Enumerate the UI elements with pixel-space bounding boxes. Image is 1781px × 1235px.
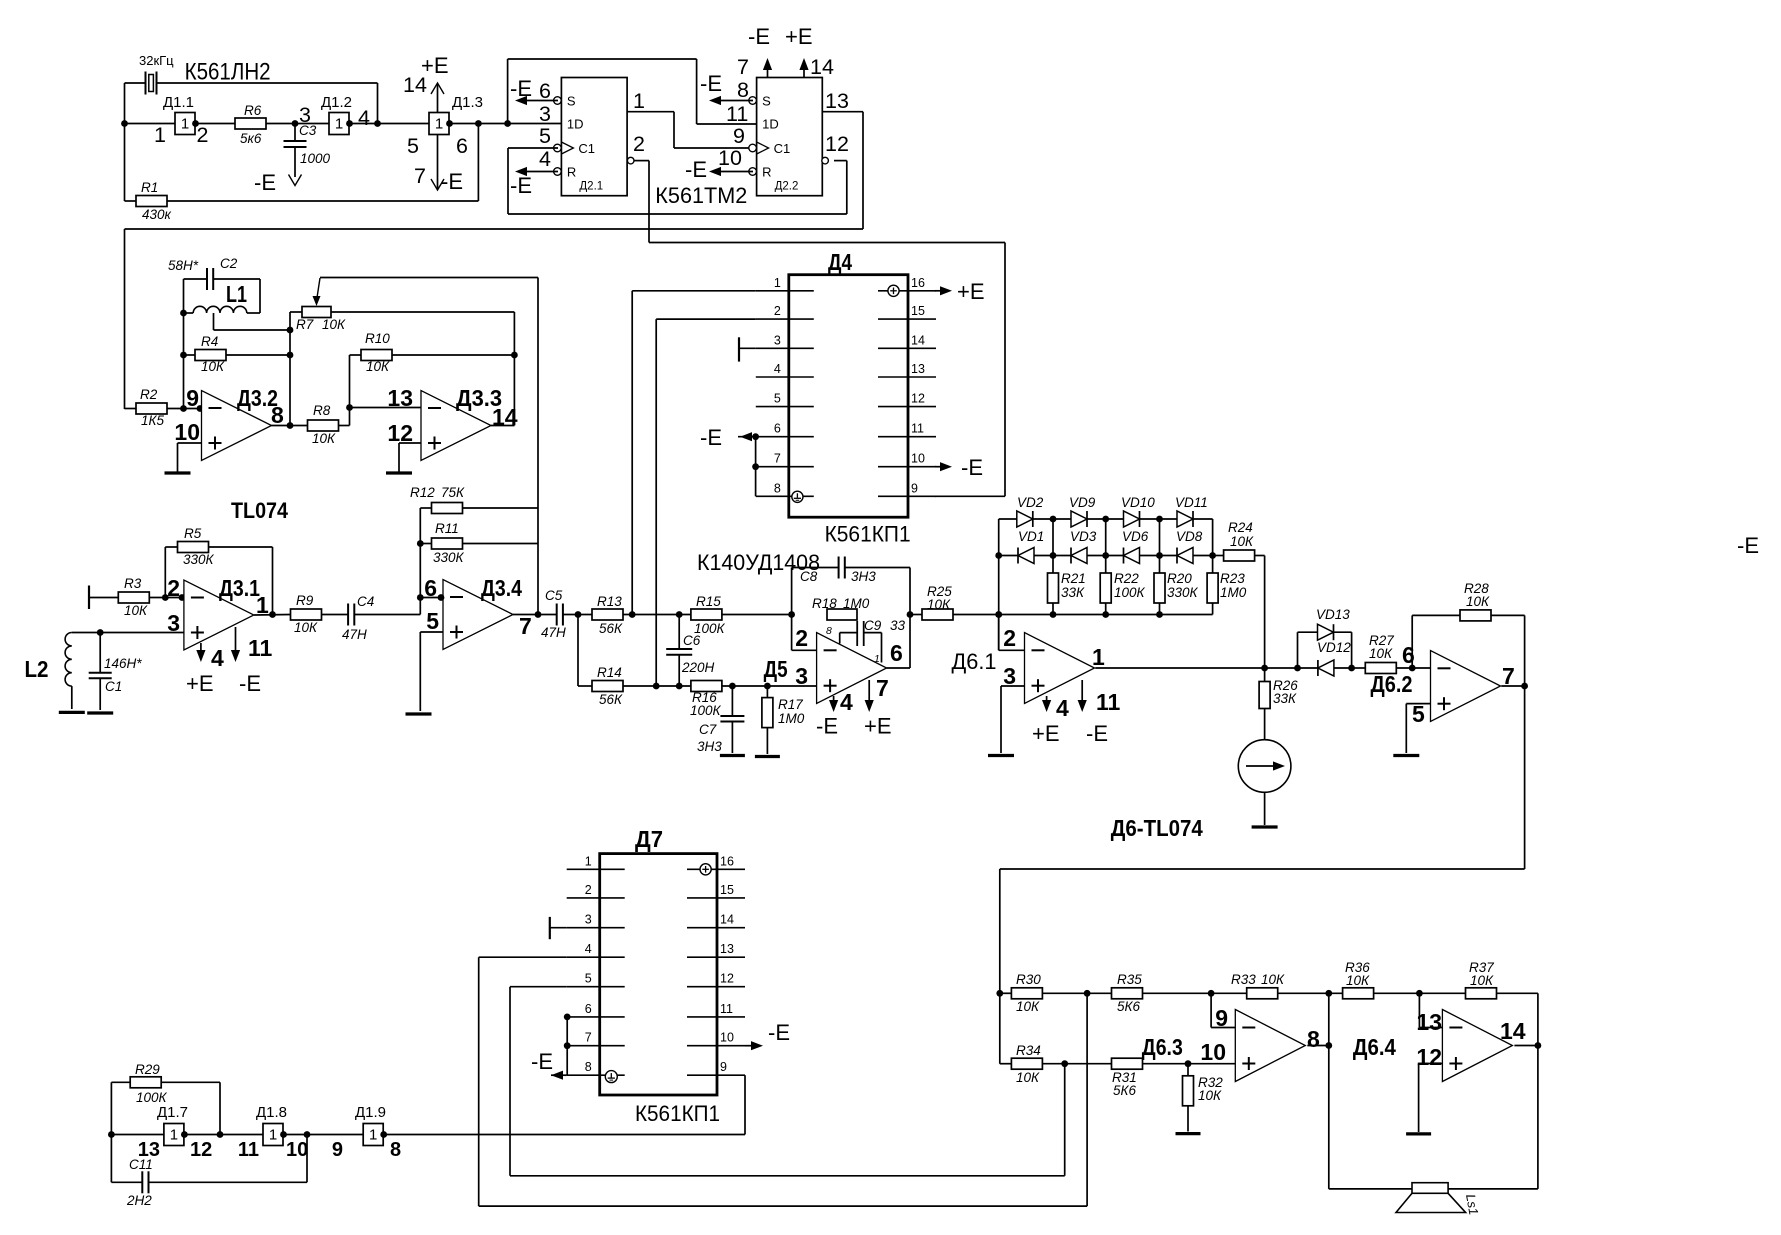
svg-text:R: R <box>762 165 771 180</box>
resistor R6 5к6 <box>235 118 266 129</box>
inverter Д1.3 <box>429 113 449 135</box>
svg-text:C1: C1 <box>105 679 122 694</box>
svg-text:9: 9 <box>911 481 918 495</box>
resistor R8 10К <box>308 420 339 431</box>
wire R11/R12 left to Д3.4 minus <box>419 508 421 598</box>
wire to Д1.7 <box>111 1134 163 1136</box>
svg-text:S: S <box>762 94 771 109</box>
svg-text:11: 11 <box>1096 689 1121 715</box>
svg-text:L1: L1 <box>226 281 247 307</box>
svg-text:4: 4 <box>211 645 224 671</box>
svg-text:10К: 10К <box>1016 1070 1040 1085</box>
svg-text:6: 6 <box>774 422 781 436</box>
diode VD2 <box>1017 511 1033 527</box>
svg-text:Д6.1: Д6.1 <box>952 649 997 674</box>
svg-text:5К6: 5К6 <box>1117 999 1140 1014</box>
svg-text:1: 1 <box>154 123 166 147</box>
capacitor C2 58Н* <box>184 278 208 280</box>
svg-text:100К: 100К <box>136 1090 168 1105</box>
wire Д5 out <box>887 667 910 669</box>
op-amp Д6.1 <box>1025 633 1095 704</box>
svg-text:-E: -E <box>768 1020 790 1045</box>
svg-text:9: 9 <box>186 385 199 411</box>
svg-text:10: 10 <box>174 419 200 445</box>
resistor R12 75К <box>420 507 431 509</box>
diode VD8 <box>1177 548 1193 564</box>
svg-text:R3: R3 <box>124 576 142 591</box>
svg-text:13: 13 <box>1416 1009 1442 1035</box>
svg-text:10К: 10К <box>312 431 336 446</box>
svg-text:VD1: VD1 <box>1018 529 1044 544</box>
svg-text:8: 8 <box>737 78 749 102</box>
wire Д3.3 out <box>491 425 514 427</box>
svg-text:330К: 330К <box>1167 585 1199 600</box>
svg-text:75К: 75К <box>441 485 465 500</box>
svg-text:R35: R35 <box>1117 972 1142 987</box>
power pin 7 -E of Д2.2 <box>767 62 769 78</box>
resistor R5 330К feedback <box>164 547 166 598</box>
wire Д6.2 out down to lowpass <box>1524 686 1526 869</box>
svg-text:9: 9 <box>733 124 745 148</box>
svg-text:1D: 1D <box>762 117 779 132</box>
svg-text:Д1.7: Д1.7 <box>157 1104 188 1121</box>
svg-text:C2: C2 <box>220 256 238 271</box>
svg-text:32кГц: 32кГц <box>139 53 174 68</box>
svg-text:Д1.9: Д1.9 <box>355 1104 386 1121</box>
svg-text:1: 1 <box>585 854 592 868</box>
ground symbol pin 8 of Д4 <box>792 491 803 502</box>
svg-text:10К: 10К <box>1230 534 1254 549</box>
capacitor C8 3Н3 feedback <box>791 568 793 615</box>
svg-text:Д6-TL074: Д6-TL074 <box>1111 815 1203 841</box>
svg-text:4: 4 <box>539 147 551 171</box>
svg-text:8: 8 <box>585 1060 592 1074</box>
input terminator bar <box>88 586 90 610</box>
svg-text:58Н*: 58Н* <box>168 258 199 273</box>
wire Д6.3 out <box>1307 1045 1329 1047</box>
svg-text:5: 5 <box>539 124 551 148</box>
resistor R18 1М0 feedback <box>827 609 857 620</box>
op-amp Д3.4 <box>443 580 513 650</box>
svg-text:-E: -E <box>1086 721 1108 746</box>
wire Д3.1 out <box>254 614 291 617</box>
svg-text:Д2.1: Д2.1 <box>579 181 603 193</box>
svg-text:5: 5 <box>426 608 439 634</box>
svg-text:10: 10 <box>286 1139 308 1161</box>
svg-text:S: S <box>567 94 576 109</box>
pin 10 R of Д2.2 to -E <box>718 171 753 173</box>
wire Д1.7 to Д1.8 <box>184 1134 263 1136</box>
svg-text:10К: 10К <box>366 359 390 374</box>
svg-text:VD9: VD9 <box>1069 495 1096 510</box>
svg-text:14: 14 <box>911 333 925 347</box>
loudspeaker LS1 <box>1412 1183 1448 1194</box>
svg-text:R2: R2 <box>140 387 158 402</box>
capacitor C11 2Н2 <box>110 1135 112 1183</box>
svg-text:4: 4 <box>1056 695 1069 721</box>
resistor R27 10К <box>1352 667 1366 669</box>
svg-text:56К: 56К <box>599 621 623 636</box>
pin 6 S of Д2.1 to -E <box>524 100 558 102</box>
svg-text:R20: R20 <box>1167 571 1192 586</box>
svg-text:4: 4 <box>358 106 370 130</box>
wire Д6.2 output <box>1501 685 1524 687</box>
svg-text:2Н2: 2Н2 <box>126 1193 152 1208</box>
resistor R37 10К <box>1466 988 1497 999</box>
wire L1 tap to Д3.2 node <box>213 313 215 330</box>
svg-text:10К: 10К <box>1261 972 1285 987</box>
wire R6 to node 3 <box>266 123 329 125</box>
ground symbol pin 8 of Д7 <box>605 1071 617 1083</box>
ground + input Д6.2 <box>1406 703 1430 705</box>
wire R36 to Д6.4 minus <box>1418 993 1420 1027</box>
wire R37 to Д6.4 out <box>1537 993 1539 1045</box>
svg-text:8: 8 <box>774 481 781 495</box>
node R30 <box>996 990 1003 997</box>
resistor R23 1М0 <box>1212 556 1214 574</box>
svg-text:+E: +E <box>957 279 985 304</box>
svg-text:-E: -E <box>510 173 532 198</box>
svg-text:Д2.2: Д2.2 <box>775 181 799 193</box>
wire Д4 pin 1 to R13 node <box>632 290 756 292</box>
svg-text:C3: C3 <box>299 123 317 138</box>
wire Д7 pin 5 bus to R30 node <box>510 986 567 988</box>
svg-text:6: 6 <box>539 79 551 103</box>
svg-text:6: 6 <box>585 1002 592 1016</box>
svg-text:R1: R1 <box>141 180 158 195</box>
svg-text:VD6: VD6 <box>1122 529 1149 544</box>
arrow -E below C3 <box>289 175 302 186</box>
resistor R29 100К <box>110 1082 112 1134</box>
svg-text:10К: 10К <box>322 317 346 332</box>
resistor R26 33К <box>1264 668 1266 682</box>
ground + input Д6.1 <box>1001 685 1025 687</box>
capacitor C6 220Н <box>678 615 680 650</box>
svg-text:-E: -E <box>685 157 707 182</box>
svg-text:-E: -E <box>239 671 261 696</box>
power arrows Д5 pins 4 7 <box>833 696 835 702</box>
svg-text:1: 1 <box>435 116 443 133</box>
op-amp Д3.1 <box>184 580 254 650</box>
ground + input Д3.4 <box>420 631 443 633</box>
svg-text:5к6: 5к6 <box>240 131 262 146</box>
svg-text:33: 33 <box>890 618 906 633</box>
svg-text:1D: 1D <box>567 117 584 132</box>
svg-text:100К: 100К <box>1114 585 1146 600</box>
svg-text:10К: 10К <box>124 603 148 618</box>
node L1 left <box>180 310 187 317</box>
svg-text:9: 9 <box>720 1060 727 1074</box>
diode VD10 <box>1124 511 1140 527</box>
svg-text:47Н: 47Н <box>541 625 566 640</box>
wire Д1.9 output to Д7 pin 9 <box>383 1134 745 1136</box>
resistor R20 330К <box>1159 556 1161 574</box>
resistor R11 330К <box>420 543 431 545</box>
svg-text:R4: R4 <box>201 334 218 349</box>
wire Д3.2 out to R8 <box>272 425 308 427</box>
svg-text:-E: -E <box>254 170 276 195</box>
svg-text:R12: R12 <box>410 485 435 500</box>
svg-text:C1: C1 <box>578 141 595 156</box>
svg-text:12: 12 <box>190 1139 212 1161</box>
wire Д1.3 output <box>450 123 562 125</box>
svg-text:R18: R18 <box>812 596 837 611</box>
resistor R14 56К <box>592 681 623 692</box>
svg-text:14: 14 <box>720 913 734 927</box>
resistor R30 10К <box>1000 992 1012 994</box>
svg-text:1М0: 1М0 <box>843 596 870 611</box>
resistor R21 33К <box>1052 556 1054 574</box>
op-amp Д3.3 <box>421 391 491 461</box>
resistor R2 1К5 <box>125 408 137 410</box>
svg-text:7: 7 <box>585 1031 592 1045</box>
diode VD12 <box>1318 660 1334 676</box>
svg-text:R17: R17 <box>778 697 803 712</box>
svg-text:13: 13 <box>720 942 734 956</box>
svg-text:R33: R33 <box>1231 972 1256 987</box>
wire Д6.1 output <box>1095 667 1318 669</box>
wire Д5 minus jog <box>791 615 793 651</box>
wire Д3.3 minus input <box>350 407 422 409</box>
diode bottom row wires <box>999 555 1018 557</box>
svg-text:C8: C8 <box>800 569 818 584</box>
wire Д1.8 to Д1.9 <box>283 1134 363 1136</box>
wire diode rows left <box>998 519 1000 650</box>
svg-text:-E: -E <box>1737 533 1759 558</box>
svg-text:14: 14 <box>403 73 427 97</box>
op-amp Д6.4 <box>1442 1010 1512 1082</box>
resistor R1 430к feedback <box>124 124 126 202</box>
resistor R31 5К6 <box>1112 1058 1143 1069</box>
pins 6 7 8 of Д4 to -E <box>738 436 756 438</box>
svg-text:146Н*: 146Н* <box>104 656 142 671</box>
svg-text:7: 7 <box>876 675 889 701</box>
diode VD9 <box>1071 511 1087 527</box>
svg-text:VD12: VD12 <box>1317 640 1351 655</box>
svg-text:56К: 56К <box>599 692 623 707</box>
ground + input Д6.4 <box>1419 1063 1443 1065</box>
svg-text:R23: R23 <box>1220 571 1245 586</box>
svg-text:3Н3: 3Н3 <box>697 739 722 754</box>
svg-text:VD3: VD3 <box>1070 529 1097 544</box>
svg-text:5: 5 <box>774 392 781 406</box>
svg-text:15: 15 <box>911 304 925 318</box>
wire Д6.4 out <box>1514 1045 1538 1047</box>
svg-text:10: 10 <box>911 452 925 466</box>
svg-text:VD13: VD13 <box>1316 607 1350 622</box>
svg-text:+E: +E <box>186 671 214 696</box>
svg-text:R29: R29 <box>135 1062 160 1077</box>
wire Д6.1 minus jog <box>998 615 1000 651</box>
svg-text:8: 8 <box>826 625 832 637</box>
svg-text:1: 1 <box>335 116 343 133</box>
resistor R13 56К <box>592 609 623 620</box>
svg-text:4: 4 <box>774 362 781 376</box>
svg-text:C5: C5 <box>545 588 563 603</box>
svg-text:3: 3 <box>774 333 781 347</box>
svg-text:11: 11 <box>726 102 748 126</box>
svg-text:R7: R7 <box>296 317 314 332</box>
trimmer R7 10К <box>290 311 302 313</box>
wire R7 wiper to R12 <box>320 277 538 279</box>
resistor R3 10К <box>118 592 149 603</box>
svg-text:12: 12 <box>720 972 734 986</box>
svg-text:C11: C11 <box>129 1157 153 1172</box>
svg-text:4: 4 <box>840 689 853 715</box>
pin 8 S of Д2.2 to -E <box>718 100 753 102</box>
svg-text:11: 11 <box>911 422 924 436</box>
svg-text:10: 10 <box>718 146 742 170</box>
resistor R22 100К <box>1105 556 1107 574</box>
svg-text:1М0: 1М0 <box>778 711 805 726</box>
svg-text:TL074: TL074 <box>231 498 289 523</box>
inverter Д1.2 <box>329 113 349 135</box>
svg-text:R5: R5 <box>184 526 202 541</box>
svg-text:-E: -E <box>531 1049 553 1074</box>
wire Д1.2 to node 4 <box>349 123 429 125</box>
svg-text:R: R <box>567 165 576 180</box>
svg-text:Д6.4: Д6.4 <box>1353 1034 1396 1060</box>
resistor R32 10К <box>1187 1064 1189 1076</box>
resistor R28 10К feedback <box>1411 615 1413 668</box>
svg-text:2: 2 <box>585 883 592 897</box>
pin 3 terminator bar of Д7 <box>549 917 551 939</box>
svg-text:12: 12 <box>911 392 925 406</box>
pins 6 7 8 of Д7 to -E <box>564 1014 571 1021</box>
capacitor C9 33 comp <box>839 633 841 644</box>
wire Д7 pin 9 to inverter chain <box>744 1075 746 1134</box>
capacitor C3 1000 <box>294 124 296 142</box>
svg-text:Д1.1: Д1.1 <box>163 94 194 111</box>
svg-text:C6: C6 <box>683 633 701 648</box>
svg-text:5: 5 <box>585 972 592 986</box>
svg-text:10К: 10К <box>1470 973 1494 988</box>
svg-text:10К: 10К <box>1466 594 1490 609</box>
resistor R9 10К <box>291 609 322 620</box>
svg-text:8: 8 <box>1307 1026 1320 1052</box>
capacitor C4 47Н <box>347 604 349 626</box>
wire main to Д1.1 <box>125 123 176 125</box>
inverter Д1.9 <box>363 1124 383 1146</box>
svg-text:7: 7 <box>737 55 749 79</box>
svg-text:5К6: 5К6 <box>1113 1083 1136 1098</box>
svg-text:Д3.4: Д3.4 <box>481 575 522 601</box>
pin 12 output of Д2.2 feedback to pin 5 <box>822 157 829 164</box>
resistor R35 5К6 <box>1112 988 1143 999</box>
svg-text:К561КП1: К561КП1 <box>825 522 911 547</box>
capacitor C5 47Н <box>538 614 557 616</box>
op-amp Д3.2 <box>202 391 272 461</box>
svg-text:7: 7 <box>519 613 532 639</box>
svg-text:Д1.2: Д1.2 <box>321 94 352 111</box>
wire Д4 pin 2 to R14 node <box>656 318 756 320</box>
svg-text:2: 2 <box>774 304 781 318</box>
svg-text:10К: 10К <box>1346 973 1370 988</box>
svg-text:Д6.2: Д6.2 <box>1371 671 1413 697</box>
resistor R34 10К <box>1000 1063 1012 1065</box>
op-amp Д6.3 <box>1235 1010 1305 1082</box>
svg-text:8: 8 <box>390 1139 401 1161</box>
resistor R15 100К <box>691 609 722 620</box>
crystal ZQ1 32кГц <box>125 82 146 84</box>
svg-text:1: 1 <box>181 116 189 133</box>
ground + input Д3.3 <box>399 442 421 444</box>
svg-text:Д5: Д5 <box>764 656 788 682</box>
svg-text:10: 10 <box>720 1031 734 1045</box>
power arrows Д6.1 pins 4 11 <box>1046 696 1048 702</box>
svg-text:-E: -E <box>700 425 722 450</box>
svg-text:10К: 10К <box>1198 1088 1222 1103</box>
svg-text:-E: -E <box>441 169 463 194</box>
svg-text:2: 2 <box>167 575 180 601</box>
power pin 14 +E of Д2.2 <box>803 62 805 78</box>
svg-text:Д7: Д7 <box>635 826 663 852</box>
svg-text:К561ЛН2: К561ЛН2 <box>185 59 271 86</box>
inverter Д1.7 <box>164 1124 184 1146</box>
diode VD11 <box>1177 511 1193 527</box>
svg-text:C9: C9 <box>864 618 882 633</box>
svg-text:1: 1 <box>1092 644 1105 670</box>
inductor L2 <box>100 632 184 634</box>
svg-text:220Н: 220Н <box>681 660 715 675</box>
svg-text:11: 11 <box>248 635 273 661</box>
wire R35 to Д6.3 minus <box>1210 993 1212 1027</box>
power pin 10 of Д7 -E <box>745 1045 752 1047</box>
svg-text:12: 12 <box>1416 1044 1442 1070</box>
pin 2 output of Д2.1 to Д4 pin 9 <box>627 157 634 164</box>
svg-text:10К: 10К <box>201 359 225 374</box>
svg-text:33К: 33К <box>1061 585 1085 600</box>
svg-text:R24: R24 <box>1228 520 1253 535</box>
svg-text:VD10: VD10 <box>1121 495 1155 510</box>
svg-text:9: 9 <box>332 1139 343 1161</box>
svg-text:3: 3 <box>585 913 592 927</box>
svg-text:1: 1 <box>369 1127 377 1144</box>
svg-text:2: 2 <box>795 625 808 651</box>
wire R33 to Д6.3 out <box>1328 993 1330 1045</box>
svg-text:C1: C1 <box>774 141 791 156</box>
svg-text:3: 3 <box>1003 663 1016 689</box>
wire R14 branch <box>577 615 579 687</box>
svg-text:3: 3 <box>539 102 551 126</box>
svg-text:12: 12 <box>825 132 849 156</box>
diode row verticals <box>1052 519 1054 556</box>
svg-text:VD11: VD11 <box>1175 495 1208 510</box>
svg-text:14: 14 <box>1500 1018 1526 1044</box>
svg-text:1: 1 <box>774 276 781 290</box>
node R4 left <box>180 352 187 359</box>
svg-text:5: 5 <box>407 134 419 158</box>
power pin 10 of Д4 -E <box>935 466 948 468</box>
resistor R10 10К <box>350 354 362 356</box>
capacitor C1 146Н* <box>99 633 101 673</box>
svg-text:1: 1 <box>269 1127 277 1144</box>
svg-text:16: 16 <box>720 854 734 868</box>
svg-text:2: 2 <box>197 123 209 147</box>
svg-text:Д1.3: Д1.3 <box>452 94 483 111</box>
wire Д1.1 to R6 <box>195 123 235 125</box>
svg-text:6: 6 <box>456 134 468 158</box>
wire Д7 pin 4 bus to R34 node <box>479 956 567 958</box>
svg-text:VD2: VD2 <box>1017 495 1044 510</box>
flip-flop Д2.2 <box>757 78 823 196</box>
IC Д7 К561КП1 <box>600 854 717 1095</box>
resistor R17 1М0 <box>766 686 768 698</box>
svg-text:-E: -E <box>816 714 838 739</box>
wire Д6.3 out to speaker <box>1328 1046 1330 1189</box>
svg-text:47Н: 47Н <box>342 627 367 642</box>
svg-text:10: 10 <box>1200 1039 1226 1065</box>
